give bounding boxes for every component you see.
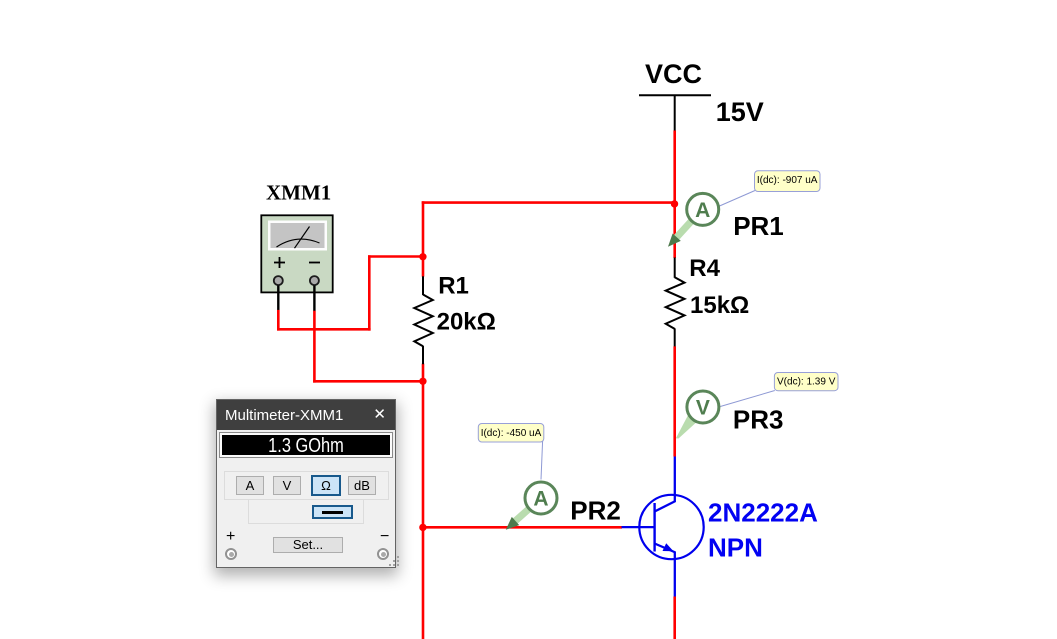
junction node N2 xyxy=(419,253,426,260)
probe PR1 tooltip I(dc): -907 uA xyxy=(755,171,821,192)
wire base row (red) xyxy=(423,526,622,529)
wire XMM1 minus to node N3 (red) xyxy=(313,380,424,383)
svg-text:15kΩ: 15kΩ xyxy=(690,292,749,319)
minus terminal jack xyxy=(377,548,389,560)
svg-text:VCC: VCC xyxy=(645,59,702,89)
wire XMM1 plus lead (black) xyxy=(277,286,279,311)
resistor R4 top lead xyxy=(674,258,676,278)
transistor Q1 emitter lead xyxy=(655,544,676,553)
probe PR2 tooltip I(dc): -450 uA xyxy=(478,424,544,443)
wire top horizontal N1 to left column xyxy=(422,201,676,204)
wire XMM1 plus to node N2 (red) xyxy=(368,255,424,258)
probe PR2 circle xyxy=(525,482,557,514)
svg-text:I(dc): -450 uA: I(dc): -450 uA xyxy=(481,428,542,439)
XMM1 plus mark xyxy=(274,257,285,268)
power symbol VCC bar xyxy=(639,95,711,131)
wire XMM1 plus up (red) xyxy=(368,255,371,330)
probe PR2 arrow xyxy=(506,509,529,530)
wire XMM1 plus horizontal (red) xyxy=(277,328,371,331)
XMM1 screen xyxy=(268,221,327,251)
probe PR1 arrow xyxy=(668,222,691,247)
resize grip xyxy=(389,564,391,566)
wire R4 to collector (red) xyxy=(673,346,676,456)
svg-text:NPN: NPN xyxy=(708,533,763,563)
wire emitter stub (blue) xyxy=(674,552,676,597)
plus terminal jack xyxy=(225,548,237,560)
XMM1 needle xyxy=(295,227,310,249)
resistor R4 bottom lead xyxy=(674,328,676,346)
Set... button xyxy=(273,537,343,553)
probe PR3 pointer xyxy=(676,414,698,439)
probe PR3 leader line xyxy=(720,391,775,407)
dialog mode group box xyxy=(224,471,389,500)
probe PR1 circle xyxy=(687,193,719,225)
svg-text:A: A xyxy=(533,487,548,510)
svg-text:2N2222A: 2N2222A xyxy=(708,497,818,527)
svg-text:PR3: PR3 xyxy=(733,404,784,434)
XMM1 minus mark xyxy=(309,262,320,264)
dialog display 1.3 GOhm xyxy=(220,433,392,457)
junction node N1 xyxy=(671,200,678,207)
svg-text:PR2: PR2 xyxy=(570,495,621,525)
svg-text:XMM1: XMM1 xyxy=(266,181,331,205)
probe PR1 leader line xyxy=(720,191,756,207)
transistor Q1 base bar xyxy=(653,503,655,552)
wire left column lower segment xyxy=(422,364,425,639)
DC mode button xyxy=(312,505,353,519)
dialog title bar xyxy=(217,400,395,430)
svg-text:20kΩ: 20kΩ xyxy=(437,309,496,336)
svg-text:R1: R1 xyxy=(438,273,469,300)
wire VCC to node N1 (red) xyxy=(673,131,676,259)
multimeter XMM1 icon body xyxy=(261,215,332,292)
svg-text:R4: R4 xyxy=(689,255,720,282)
transistor Q1 2N2222A circle xyxy=(639,495,703,559)
dialog signal group box xyxy=(248,499,364,524)
wire emitter to bottom (red) xyxy=(673,597,676,639)
wire XMM1 plus down (red) xyxy=(277,310,280,331)
probe PR3 tooltip V(dc): 1.39 V xyxy=(774,373,838,391)
resistor R1 top lead xyxy=(422,276,424,295)
svg-text:V(dc): 1.39 V: V(dc): 1.39 V xyxy=(777,377,836,388)
button A xyxy=(236,476,264,495)
wire base stub (blue) xyxy=(622,526,655,528)
minus terminal label xyxy=(380,528,389,546)
button V xyxy=(273,476,301,495)
XMM1 minus terminal xyxy=(310,276,319,285)
transistor Q1 emitter arrow xyxy=(663,543,674,551)
wire XMM1 minus down (red) xyxy=(313,311,316,383)
XMM1 scale arc xyxy=(277,239,320,247)
junction node N4 xyxy=(419,524,426,531)
multimeter dialog Multimeter-XMM1 xyxy=(216,399,396,568)
svg-text:15V: 15V xyxy=(716,97,764,127)
junction node N3 xyxy=(419,378,426,385)
svg-text:A: A xyxy=(695,199,710,222)
transistor Q1 collector lead xyxy=(655,501,676,512)
probe PR2 leader line xyxy=(541,441,543,480)
XMM1 plus terminal xyxy=(274,276,283,285)
resistor R4 body xyxy=(666,277,685,329)
button Ohm (selected) xyxy=(311,475,341,496)
svg-text:I(dc): -907 uA: I(dc): -907 uA xyxy=(757,175,818,186)
svg-text:V: V xyxy=(696,396,710,419)
svg-text:PR1: PR1 xyxy=(733,211,784,241)
button dB xyxy=(348,476,376,495)
wire left column upper segment xyxy=(422,201,425,276)
plus terminal label xyxy=(226,528,235,546)
wire collector stub (blue) xyxy=(674,457,676,502)
probe PR3 circle xyxy=(687,391,719,423)
wire XMM1 minus lead (black) xyxy=(313,286,315,312)
resistor R1 body xyxy=(414,295,433,347)
resistor R1 bottom lead xyxy=(422,346,424,364)
